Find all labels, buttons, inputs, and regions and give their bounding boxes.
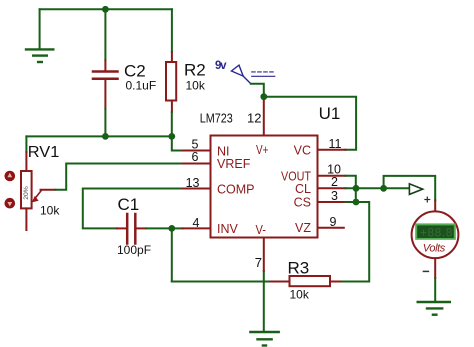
pin 6 VREF stub: [183, 163, 211, 165]
svg-text:20%: 20%: [23, 186, 30, 200]
svg-text:13: 13: [186, 176, 200, 190]
wire VOUT to CL/CS vertical: [346, 176, 356, 202]
wire 9v to V+ junction: [251, 84, 264, 97]
ground bottom-center: [250, 332, 278, 346]
svg-text:RV1: RV1: [28, 144, 60, 161]
pin 11 VC stub: [318, 149, 346, 151]
wire INV junction down to bottom bus: [171, 228, 173, 281]
node junction CL / voltmeter branch: [380, 185, 387, 192]
RV1 decrement button: [5, 198, 16, 209]
svg-text:7: 7: [255, 255, 262, 270]
svg-text:LM723: LM723: [200, 111, 233, 126]
voltmeter pin bottom: [434, 258, 436, 278]
wire R2 bottom: [171, 112, 173, 136]
wire main NI bus: [26, 135, 171, 137]
wire pin7 to ground: [263, 271, 265, 332]
svg-text:R3: R3: [288, 259, 310, 278]
ground top-left: [26, 9, 53, 62]
svg-text:INV: INV: [217, 222, 239, 236]
wire R2-junction to pin5 NI: [172, 136, 183, 150]
pin 7 V- stub: [263, 238, 265, 272]
wire CL junction up and over to voltmeter: [384, 176, 436, 200]
RV1 increment button: [5, 171, 16, 182]
wire CS to R3 right vertical: [341, 202, 369, 282]
wire RV1 wiper to VREF pin6: [56, 164, 183, 190]
power terminal 9v: [215, 60, 275, 84]
svg-text:V-: V-: [256, 223, 267, 237]
svg-text:CS: CS: [294, 196, 311, 210]
pin 3 CS stub: [318, 201, 346, 203]
voltmeter pin top: [434, 200, 436, 211]
node junction top-bus / C2: [102, 6, 109, 13]
pin 5 NI stub: [183, 150, 211, 152]
node junction bus / R2 / NI: [168, 133, 175, 140]
svg-text:C1: C1: [118, 195, 140, 214]
svg-text:9v: 9v: [215, 60, 227, 72]
wire C2 top: [104, 9, 106, 60]
wire COMP pin13 to C1 left: [83, 189, 183, 229]
voltmeter body: [412, 211, 459, 258]
svg-text:10k: 10k: [40, 204, 60, 218]
svg-text:COMP: COMP: [217, 183, 255, 197]
node junction C1 / INV / down-wire: [168, 225, 175, 232]
svg-text:0.1uF: 0.1uF: [126, 79, 157, 93]
svg-text:V+: V+: [256, 143, 269, 157]
node junction bus / C2: [102, 133, 109, 140]
svg-text:100pF: 100pF: [117, 243, 151, 257]
svg-text:9: 9: [330, 215, 337, 229]
potentiometer RV1 10k 20%: [21, 144, 60, 230]
wire RV1 top: [25, 136, 27, 152]
chip U1 LM723: [183, 101, 346, 272]
wire CL line: [346, 187, 410, 189]
svg-text:11: 11: [329, 137, 342, 151]
wire C2 bottom: [104, 109, 106, 136]
node junction V+ / VC loop: [260, 93, 267, 100]
pin 10 VOUT stub: [318, 175, 346, 177]
capacitor C1 100pF: [117, 195, 151, 257]
svg-text:10k: 10k: [290, 288, 310, 302]
wire C1 right to INV junction: [146, 227, 172, 229]
svg-text:VREF: VREF: [217, 157, 251, 171]
wire bottom bus: [172, 281, 272, 283]
resistor R3 10k: [271, 259, 341, 302]
wire top bus: [40, 8, 172, 10]
svg-text:VC: VC: [294, 144, 311, 158]
wire V+ junction to VC loop: [264, 97, 356, 150]
node junction CL / VOUT vertical: [353, 185, 360, 192]
capacitor C2 0.1uF: [93, 60, 156, 109]
svg-text:12: 12: [247, 111, 261, 126]
pin 9 VZ stub: [318, 227, 344, 229]
svg-text:10k: 10k: [186, 79, 206, 93]
ground bottom-right: [418, 302, 450, 315]
pin 4 INV stub: [183, 227, 211, 229]
svg-text:CL: CL: [295, 182, 311, 196]
svg-text:6: 6: [192, 150, 199, 164]
voltmeter probe + label: [425, 197, 430, 202]
pin 13 COMP stub: [183, 188, 211, 190]
pin 12 V+ stub: [263, 101, 265, 136]
voltmeter probe - label: [423, 270, 428, 272]
pin 2 CL stub: [318, 187, 346, 189]
svg-text:Volts: Volts: [423, 243, 446, 255]
wire junction to INV pin4: [172, 227, 183, 229]
svg-text:U1: U1: [319, 104, 341, 123]
svg-text:R2: R2: [184, 61, 206, 80]
node junction CS / VOUT vertical: [353, 199, 360, 206]
svg-text:+88.8: +88.8: [420, 225, 453, 239]
wire R2 top: [171, 9, 173, 52]
svg-text:3: 3: [331, 189, 338, 203]
wire voltmeter to ground: [434, 278, 436, 302]
svg-text:2: 2: [331, 175, 338, 189]
resistor R2 10k: [166, 52, 206, 112]
output arrow terminal: [409, 184, 422, 195]
svg-text:VZ: VZ: [295, 221, 311, 235]
svg-text:4: 4: [193, 216, 200, 230]
